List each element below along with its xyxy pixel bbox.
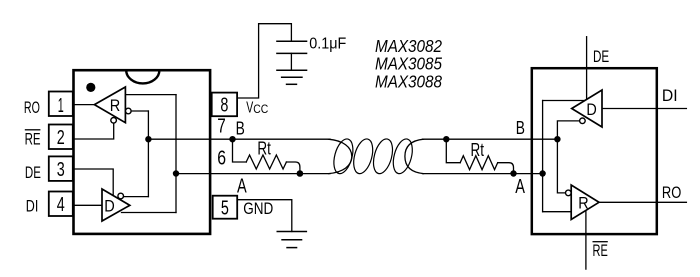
svg-text:R: R xyxy=(110,96,121,115)
svg-text:0.1μF: 0.1μF xyxy=(309,35,346,52)
svg-text:B: B xyxy=(516,118,525,138)
svg-text:3: 3 xyxy=(57,159,65,181)
svg-text:RE: RE xyxy=(593,241,608,260)
svg-text:D: D xyxy=(104,197,115,216)
svg-text:A: A xyxy=(515,176,525,198)
svg-text:Rt: Rt xyxy=(257,138,271,158)
svg-text:RO: RO xyxy=(662,183,681,202)
svg-text:DI: DI xyxy=(26,197,39,216)
svg-text:DE: DE xyxy=(25,163,41,182)
svg-text:2: 2 xyxy=(57,127,65,149)
svg-text:RE: RE xyxy=(25,129,41,148)
svg-text:7: 7 xyxy=(217,116,226,138)
svg-text:GND: GND xyxy=(243,199,273,218)
svg-text:DE: DE xyxy=(593,47,609,66)
svg-text:A: A xyxy=(237,176,247,198)
svg-text:B: B xyxy=(236,119,245,139)
svg-text:DI: DI xyxy=(662,86,678,105)
svg-text:8: 8 xyxy=(220,95,228,117)
svg-text:RO: RO xyxy=(24,98,40,117)
svg-text:R: R xyxy=(578,194,588,213)
svg-text:1: 1 xyxy=(58,95,64,117)
svg-text:4: 4 xyxy=(57,194,65,216)
svg-text:MAX3088: MAX3088 xyxy=(375,71,442,91)
svg-text:D: D xyxy=(586,100,596,119)
svg-text:5: 5 xyxy=(221,197,229,219)
svg-text:6: 6 xyxy=(217,148,226,170)
svg-text:Rt: Rt xyxy=(471,140,485,160)
svg-text:CC: CC xyxy=(253,104,268,116)
